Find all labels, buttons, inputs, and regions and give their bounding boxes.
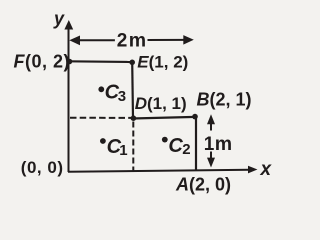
charge C1 [100, 136, 128, 159]
wire F-E (top edge) [68, 60, 132, 63]
dimension label 2 m [117, 29, 146, 51]
dashed line D to x-axis [132, 122, 134, 172]
dimension arrow 1m up part [207, 114, 215, 130]
svg-text:2: 2 [182, 141, 190, 158]
svg-text:x: x [260, 159, 273, 180]
node E dot [129, 60, 135, 66]
dimension arrow 1m down part [207, 152, 215, 168]
wire E-D (vertical edge) [131, 62, 134, 118]
dashed line (0,1) to D [70, 117, 131, 119]
dimension arrow 2m left part [69, 36, 115, 46]
svg-text:E(1, 2): E(1, 2) [137, 52, 188, 71]
svg-text:C: C [168, 135, 183, 157]
x-axis [68, 166, 258, 174]
wire B-A (vertical edge) [195, 117, 197, 171]
node D dot [131, 115, 137, 121]
svg-text:D(1, 1): D(1, 1) [135, 94, 187, 113]
svg-text:2: 2 [117, 30, 128, 51]
svg-text:1: 1 [119, 142, 127, 159]
svg-text:B(2, 1): B(2, 1) [197, 90, 252, 110]
y-axis [64, 20, 73, 172]
node F dot [67, 59, 73, 65]
dimension label 1 m [204, 133, 232, 155]
dimension arrow 2m right part [148, 35, 194, 45]
svg-text:m: m [215, 133, 232, 155]
svg-text:A(2, 0): A(2, 0) [175, 174, 231, 194]
svg-text:m: m [129, 29, 146, 51]
charge C3 [98, 82, 126, 105]
node B dot [192, 114, 198, 120]
svg-text:F(0, 2): F(0, 2) [14, 51, 71, 71]
wire D-B (horizontal edge) [132, 117, 196, 119]
charge C2 [162, 135, 191, 158]
svg-text:y: y [53, 9, 65, 29]
svg-text:3: 3 [118, 88, 126, 105]
svg-text:1: 1 [204, 134, 215, 155]
svg-text:(0, 0): (0, 0) [21, 158, 64, 177]
